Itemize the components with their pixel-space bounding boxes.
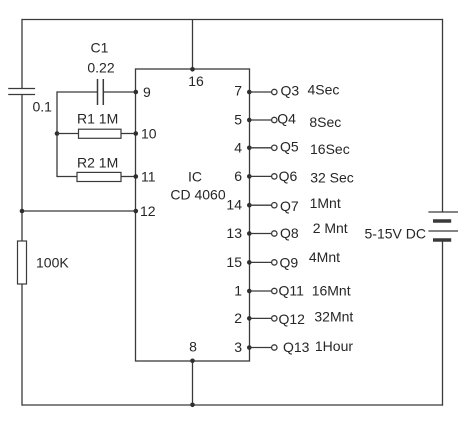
junction pin 3 (247, 345, 252, 350)
wire right rail lower (442, 240, 444, 406)
svg-text:3: 3 (234, 339, 242, 355)
svg-text:Q11: Q11 (279, 282, 305, 298)
svg-text:Q7: Q7 (280, 198, 299, 214)
terminal Q6 (272, 174, 277, 179)
svg-text:100K: 100K (36, 255, 69, 271)
wire pin 7 (250, 91, 272, 93)
junction pin 9 (134, 90, 139, 95)
svg-text:32 Sec: 32 Sec (310, 169, 354, 185)
svg-text:Q5: Q5 (280, 138, 299, 154)
svg-text:IC: IC (188, 169, 202, 185)
svg-text:Q3: Q3 (281, 82, 300, 98)
wire pin 9 left segment (57, 91, 98, 93)
svg-text:14: 14 (226, 197, 242, 213)
junction RC block left (55, 131, 60, 136)
svg-text:15: 15 (226, 254, 242, 270)
svg-text:8Sec: 8Sec (309, 114, 341, 130)
wire pin 9 right segment (103, 91, 135, 93)
terminal Q9 (272, 260, 277, 265)
wire pin 6 (250, 175, 272, 177)
svg-text:1Mnt: 1Mnt (310, 195, 341, 211)
terminal Q11 (272, 288, 277, 293)
wire pin 3 (250, 347, 272, 349)
svg-text:2 Mnt: 2 Mnt (313, 220, 348, 236)
svg-text:8: 8 (189, 338, 197, 354)
wire pin 12 (22, 210, 136, 212)
svg-text:1: 1 (234, 283, 242, 299)
svg-text:13: 13 (226, 225, 242, 241)
junction pin 12 at left rail (20, 209, 25, 214)
svg-text:16Sec: 16Sec (310, 141, 350, 157)
junction pin 6 (247, 174, 252, 179)
wire bottom rail (22, 404, 444, 406)
capacitor 0.1 (8, 89, 35, 95)
svg-text:5: 5 (234, 112, 242, 128)
wire left rail upper (21, 19, 23, 89)
svg-text:16: 16 (188, 73, 204, 89)
svg-text:R2 1M: R2 1M (77, 155, 118, 171)
svg-text:Q13: Q13 (283, 339, 310, 355)
op-amp U1: IC CD4060 body (136, 69, 250, 361)
svg-text:CD 4060: CD 4060 (170, 187, 225, 203)
terminal Q3 (272, 89, 277, 94)
junction pin 16 (190, 67, 195, 72)
resistor R2 (57, 172, 136, 181)
svg-text:4Mnt: 4Mnt (309, 249, 340, 265)
svg-text:12: 12 (140, 203, 156, 219)
junction pin 14 (247, 203, 252, 208)
wire right rail upper (442, 19, 444, 212)
label IC CD 4060 (170, 169, 225, 203)
terminal Q7 (272, 203, 277, 208)
svg-text:7: 7 (234, 82, 242, 98)
svg-text:1Hour: 1Hour (315, 338, 353, 354)
svg-text:Q8: Q8 (280, 225, 299, 241)
svg-text:2: 2 (234, 310, 242, 326)
wire left rail middle (21, 95, 23, 242)
battery BT1 (428, 212, 458, 240)
svg-text:5-15V DC: 5-15V DC (365, 226, 426, 242)
wire pin 2 (250, 317, 272, 319)
junction pin 11 (134, 174, 139, 179)
terminal Q13 (272, 345, 277, 350)
wire pin 13 (250, 233, 272, 235)
svg-text:9: 9 (143, 84, 151, 100)
svg-text:0.22: 0.22 (87, 60, 114, 76)
junction pin 5 (247, 118, 252, 123)
wire pin 1 (250, 290, 272, 292)
svg-text:0.1: 0.1 (33, 98, 53, 114)
svg-text:11: 11 (141, 169, 156, 185)
wire pin 4 (250, 147, 272, 149)
svg-text:32Mnt: 32Mnt (314, 308, 353, 324)
wire pin 14 (250, 204, 272, 206)
svg-text:4: 4 (234, 139, 242, 155)
capacitor C1 (98, 79, 104, 105)
svg-text:10: 10 (141, 126, 157, 142)
svg-text:6: 6 (234, 168, 242, 184)
junction pin 8 at bottom rail (190, 403, 195, 408)
junction pin 4 (247, 146, 252, 151)
svg-text:4Sec: 4Sec (308, 81, 340, 97)
svg-text:Q4: Q4 (277, 111, 296, 127)
svg-text:Q6: Q6 (279, 168, 298, 184)
svg-text:Q9: Q9 (280, 255, 299, 271)
wire RC block left vertical (56, 91, 58, 177)
junction pin 1 (247, 289, 252, 294)
terminal Q5 (272, 145, 277, 150)
svg-text:R1 1M: R1 1M (77, 110, 118, 126)
wire pin 5 (250, 119, 272, 121)
svg-text:Q12: Q12 (279, 311, 306, 327)
junction pin 7 (247, 90, 252, 95)
wire pin 16 (192, 20, 194, 70)
junction pin 15 (247, 260, 252, 265)
svg-text:16Mnt: 16Mnt (312, 282, 351, 298)
resistor R1 (57, 129, 136, 138)
wire pin 8 (192, 361, 194, 405)
wire left rail lower (21, 284, 23, 406)
terminal Q4 (272, 117, 277, 122)
resistor 100K (18, 241, 27, 284)
junction pin 10 (134, 131, 139, 136)
terminal Q12 (272, 316, 277, 321)
terminal Q8 (272, 231, 277, 236)
junction pin 8 at IC (190, 359, 195, 364)
wire top rail (22, 19, 444, 21)
svg-text:C1: C1 (91, 40, 109, 56)
junction pin 2 (247, 316, 252, 321)
junction pin 12 at IC (134, 209, 139, 214)
wire pin 15 (250, 261, 272, 263)
junction pin 13 (247, 231, 252, 236)
